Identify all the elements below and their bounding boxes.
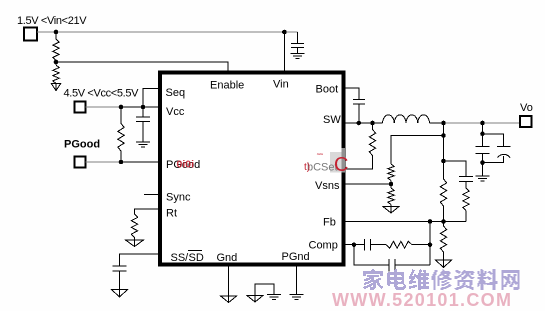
- node Boot-SW: [357, 121, 362, 126]
- svg-text:Vcc: Vcc: [166, 106, 185, 118]
- node Vcc cap: [141, 105, 146, 110]
- watermark gray box: [330, 152, 342, 173]
- wire Vcc lead: [86, 106, 122, 108]
- wire comp parallel branch: [354, 245, 389, 265]
- ground arrow Gnd: [221, 296, 237, 303]
- resistor Fb ground: [440, 222, 446, 261]
- wire PGood lead: [86, 161, 122, 163]
- svg-text:t): t): [304, 162, 310, 173]
- svg-text:Seq: Seq: [166, 87, 186, 99]
- node Vin pin riser: [282, 30, 287, 35]
- ground arrow divider: [383, 207, 399, 214]
- node output A: [441, 121, 446, 126]
- node Vcc pullup: [119, 105, 124, 110]
- resistor comp: [386, 241, 430, 248]
- ground arrow SS: [112, 290, 128, 298]
- svg-text:PGnd: PGnd: [282, 251, 310, 263]
- wire Vsns: [343, 183, 391, 185]
- capacitor SS: [113, 266, 127, 290]
- resistor A to Fb: [440, 179, 446, 206]
- capacitor comp series: [365, 239, 387, 251]
- wire node column: [443, 123, 445, 222]
- node SW sense: [370, 121, 375, 126]
- resistor Rt: [131, 214, 137, 240]
- node enable tap: [54, 60, 59, 65]
- capacitor output electrolytic: [483, 146, 511, 162]
- ground arrow Rt: [126, 240, 144, 247]
- wire SW: [343, 122, 383, 124]
- resistor divider bottom: [388, 184, 394, 207]
- svg-text:Sync: Sync: [166, 192, 191, 204]
- node cap split: [480, 132, 485, 137]
- node PGood: [119, 160, 124, 165]
- svg-text:Enable: Enable: [210, 80, 244, 92]
- svg-text:SS/: SS/: [171, 252, 190, 264]
- wire SS: [120, 254, 161, 266]
- wire Seq riser: [143, 89, 160, 108]
- ground PGnd: [290, 295, 304, 300]
- wire electrolytic branch: [483, 134, 504, 147]
- wire cap branch: [444, 161, 467, 177]
- node Fb column: [441, 219, 446, 224]
- wire output cap riser: [482, 123, 484, 147]
- ground arrow enable divider: [51, 84, 61, 91]
- ground Vcc cap: [136, 142, 150, 147]
- ground input cap: [291, 54, 305, 59]
- wire Sync stub: [144, 194, 160, 196]
- svg-text:C: C: [334, 154, 348, 176]
- svg-text:0i0i: 0i0i: [177, 159, 195, 171]
- op-amp U1 IC body: [160, 73, 344, 265]
- terminal Vcc input: [75, 102, 86, 113]
- wire comp riser: [429, 222, 431, 266]
- wire Boot: [343, 88, 359, 100]
- wire Vin pin riser: [283, 32, 285, 72]
- watermark chinese (vectorized): [363, 269, 519, 290]
- wire divider bracket: [391, 136, 444, 165]
- inductor L1: [383, 115, 430, 123]
- wire bCSet pin: [346, 168, 373, 170]
- resistor divider top: [388, 164, 394, 184]
- svg-text:Gnd: Gnd: [217, 252, 238, 264]
- wire Vcc to IC: [121, 106, 160, 108]
- node Fb comp: [428, 219, 433, 224]
- svg-text:Rt: Rt: [166, 208, 177, 220]
- capacitor input bypass: [291, 44, 304, 54]
- node Vin divider tap: [54, 30, 59, 35]
- svg-text:SW: SW: [323, 114, 341, 126]
- svg-text:SD: SD: [189, 252, 204, 264]
- node comp junction: [428, 242, 433, 247]
- capacitor comp parallel: [389, 259, 430, 272]
- ground arrow Fb: [436, 260, 452, 268]
- ground tie arrow: [247, 296, 263, 303]
- resistor PGood pullup: [118, 107, 124, 162]
- terminal Vo: [520, 116, 532, 127]
- capacitor Boot: [353, 100, 365, 124]
- wire input cap lead: [297, 32, 299, 44]
- capacitor Vcc bypass: [136, 107, 150, 142]
- wire Vin top rail: [37, 31, 298, 33]
- wire output rail: [430, 122, 444, 124]
- node Comp: [352, 242, 357, 247]
- svg-text:˜˜: ˜˜: [316, 152, 324, 162]
- resistor feedforward: [463, 188, 469, 222]
- wire Fb: [343, 221, 466, 223]
- ground tie 3line: [267, 295, 281, 300]
- node cap branch: [441, 159, 446, 164]
- terminal Vin input: [24, 28, 37, 41]
- wire PGnd lead: [296, 264, 298, 294]
- terminal PGood: [75, 157, 86, 168]
- ground output caps: [476, 176, 490, 181]
- svg-text:Vo: Vo: [520, 102, 533, 114]
- capacitor feedforward: [459, 177, 473, 189]
- resistor SW sense: [343, 123, 376, 169]
- resistor enable divider top: [53, 32, 59, 62]
- red watermark over bCSet: [304, 152, 348, 176]
- svg-text:WWW.520101.COM: WWW.520101.COM: [332, 290, 512, 310]
- svg-text:Vsns: Vsns: [315, 180, 340, 192]
- svg-text:Fb: Fb: [323, 217, 336, 229]
- node output caps: [480, 121, 485, 126]
- wire enable: [56, 62, 228, 72]
- wire Gnd lead: [228, 264, 230, 296]
- wire Comp: [343, 244, 365, 246]
- capacitor output ceramic: [476, 147, 490, 177]
- svg-text:Boot: Boot: [316, 84, 339, 96]
- wire PGood to IC: [121, 161, 160, 163]
- wire Rt: [135, 209, 161, 214]
- wire ground tie: [255, 284, 274, 296]
- node Vsns: [389, 182, 394, 187]
- svg-text:bCSet: bCSet: [307, 162, 338, 174]
- svg-text:4.5V <Vcc<5.5V: 4.5V <Vcc<5.5V: [64, 88, 140, 100]
- svg-text:PGood: PGood: [64, 139, 100, 151]
- svg-text:Vin: Vin: [273, 79, 289, 91]
- node cap bottoms: [480, 160, 485, 165]
- resistor enable divider bottom: [53, 62, 59, 84]
- svg-text:1.5V <Vin<21V: 1.5V <Vin<21V: [17, 15, 87, 27]
- node divider bracket: [441, 133, 446, 138]
- svg-text:Comp: Comp: [309, 240, 338, 252]
